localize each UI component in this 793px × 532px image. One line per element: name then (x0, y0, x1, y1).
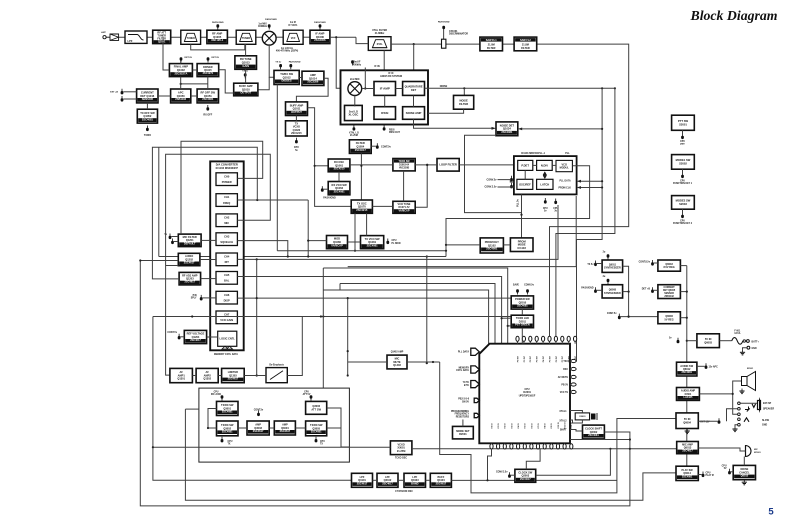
DA channel CH3 (216, 233, 237, 246)
wire noise det right feed (522, 128, 603, 130)
wire 2nd mix drop (336, 37, 348, 88)
wire 314 to rx vco (315, 165, 329, 167)
svg-text:CONT.5v: CONT.5v (381, 145, 392, 148)
pin below ptt (681, 134, 684, 140)
svg-text:5V REG: 5V REG (665, 318, 674, 321)
svg-text:400-470 MHz (2SF4): 400-470 MHz (2SF4) (276, 50, 299, 53)
current detector Q6005 (658, 285, 681, 299)
pin ext 12v (718, 418, 721, 424)
svg-text:RF AMP: RF AMP (212, 31, 222, 35)
DA channel CH6 (216, 291, 237, 304)
svg-text:FREQUENCY: FREQUENCY (455, 414, 470, 416)
wire vertical 615 staircase (556, 88, 615, 336)
wire lpf chain 1 (373, 479, 378, 481)
svg-text:PA/5V/GND: PA/5V/GND (265, 18, 277, 21)
wire line 266 to pll (348, 196, 577, 267)
svg-text:K7 IO: K7 IO (538, 423, 540, 429)
wire play sw pin (698, 474, 701, 476)
noise amplifier U1f (403, 107, 425, 120)
pin clock sw (508, 472, 511, 478)
TX/RX switch Q3005 (306, 421, 327, 436)
svg-text:PA/5V/GND: PA/5V/GND (314, 21, 326, 24)
wire pll down (521, 194, 523, 238)
wire loop y268 (323, 268, 507, 344)
wire fm tune down (245, 69, 247, 83)
wire trunk to 5vin (687, 340, 697, 342)
wire 5vin to switch (719, 340, 731, 342)
pin TX 5v above buff amp (242, 71, 249, 79)
pin cpu play (702, 472, 705, 478)
wire pin synth2 (597, 289, 602, 291)
svg-text:5V: 5V (724, 468, 727, 470)
junction prom clk (601, 186, 603, 188)
svg-text:CH5: CH5 (224, 273, 230, 277)
wire pin to rx vco sw (324, 188, 329, 190)
TX VCO switch Q1081 (361, 236, 384, 249)
pin cont5 mid (618, 314, 621, 320)
junction bus 250 (445, 250, 447, 252)
junction ch4 (256, 258, 258, 260)
connector PLL DATA (471, 348, 480, 355)
svg-text:PLL 5v: PLL 5v (518, 199, 520, 207)
wire 439 route (440, 362, 676, 493)
svg-text:FILTER: FILTER (521, 47, 530, 50)
pin below q3005 (315, 437, 318, 443)
wire feedback down to vco tune (415, 165, 427, 207)
svg-text:DISP: DISP (224, 298, 230, 302)
svg-text:IC1102 M62364FP: IC1102 M62364FP (216, 166, 239, 170)
FM tune Q1013 (235, 56, 257, 70)
svg-text:CH0: CH0 (224, 174, 230, 178)
wire cpu top pad 7 (555, 341, 557, 343)
svg-text:SHIFT: SHIFT (560, 430, 567, 432)
buffer Q3104 (430, 473, 451, 487)
MIC mute Q1403 (387, 355, 407, 369)
svg-text:FREQ: FREQ (223, 201, 230, 205)
junction 347 b (347, 374, 349, 376)
wire noise amp out down (414, 119, 492, 128)
svg-text:2SC4617: 2SC4617 (228, 377, 239, 381)
pin rssi out below IF IC (383, 125, 386, 131)
wire current det to APC (158, 95, 171, 97)
wire buffamp to driver (219, 70, 234, 93)
svg-text:PTT: PTT (680, 144, 685, 146)
wire pin curdet (654, 289, 658, 291)
play switch Q6014 (676, 466, 698, 480)
earphone jack J601 (738, 402, 756, 426)
wire xtal filter input (356, 37, 368, 43)
wire vcxo line (153, 446, 391, 448)
loop filter (437, 159, 459, 172)
junction synth bus b (628, 316, 630, 318)
ground below noise cancel (742, 480, 747, 485)
RF attenuator (153, 30, 171, 44)
svg-text:2SC4081: 2SC4081 (142, 117, 154, 121)
LPF Q3102 (377, 473, 398, 487)
junction prom key feed (445, 244, 447, 246)
pin PA/5V/GND above mixer (265, 18, 277, 30)
CPU top pad 8 (561, 336, 564, 341)
svg-text:CONV.2.5v: CONV.2.5v (496, 471, 508, 473)
svg-text:K6 IO: K6 IO (531, 423, 533, 429)
svg-text:CPU: CPU (680, 220, 685, 222)
pin above q3006 (310, 395, 313, 400)
junction mod feed a (307, 240, 309, 242)
wire buff out right (451, 479, 617, 481)
junction cpu bus 629 (629, 438, 631, 440)
svg-text:CONT.8.5v: CONT.8.5v (639, 261, 651, 263)
tuned filter BPF1 (181, 30, 201, 44)
wire q3002 to q3003 (238, 427, 247, 429)
wire 347 vertical (347, 298, 349, 376)
svg-text:2SB1132: 2SB1132 (175, 97, 186, 101)
wire tx osc to vco tune (372, 205, 393, 207)
svg-text:400MHz: 400MHz (258, 25, 268, 28)
svg-text:LPF: LPF (128, 39, 133, 43)
junction module left (207, 427, 209, 429)
svg-text:CH1: CH1 (224, 195, 230, 199)
wire current det to tx off (146, 103, 148, 109)
PROM key Q1102 (480, 238, 503, 253)
svg-text:PLL: PLL (565, 152, 570, 155)
junction trunk c (686, 340, 688, 342)
svg-text:AF MUTE: AF MUTE (558, 376, 569, 379)
buffer amplifier Q1011 (286, 102, 308, 116)
svg-text:PB 5V: PB 5V (561, 384, 568, 386)
wire nc pin (731, 471, 733, 473)
wire reg1 stub (680, 265, 686, 267)
wire lpf chain 3 (426, 479, 431, 481)
svg-text:DET +B: DET +B (642, 289, 651, 291)
svg-text:DET: DET (411, 88, 417, 92)
wire v2b ch7 down (153, 317, 352, 481)
wire limiter to deemph (244, 375, 266, 377)
svg-text:TX: TX (228, 443, 231, 445)
CPU bottom pad 12 (563, 444, 566, 449)
svg-text:DET Q6005: DET Q6005 (663, 290, 676, 292)
CPU top pad 9 (567, 336, 570, 341)
svg-text:PLL DATA: PLL DATA (458, 351, 469, 354)
svg-text:SPEAKER: SPEAKER (763, 408, 774, 411)
pin above IF IC (351, 60, 354, 65)
wire driver to final amp (192, 69, 197, 71)
mode set R2001 (453, 426, 474, 439)
phase detector (518, 160, 533, 170)
svg-text:RIT: RIT (225, 260, 230, 264)
amplifier Q1014 (302, 71, 324, 85)
svg-text:Q6004: Q6004 (683, 420, 691, 424)
svg-text:SYNTHESIZER: SYNTHESIZER (604, 267, 621, 270)
svg-text:2SC4081: 2SC4081 (311, 430, 322, 434)
junction led stub a (501, 317, 503, 319)
svg-text:2SC4081: 2SC4081 (501, 130, 513, 134)
svg-text:CONT.5v: CONT.5v (167, 332, 177, 334)
svg-text:IF VCF1: IF VCF1 (289, 24, 299, 27)
pin PA/5V/GND above RF amp (212, 21, 224, 30)
wire cpu top pad 4 (536, 341, 538, 343)
TX/RX switch Q1012 (274, 70, 299, 84)
wire cpu top pad 9 (568, 341, 570, 343)
svg-text:S2001: S2001 (679, 123, 687, 127)
svg-text:SQUELCH: SQUELCH (220, 240, 233, 244)
wire cpu right pad 5 (569, 391, 572, 393)
svg-text:MC601: MC601 (754, 452, 762, 454)
svg-text:21.25M: 21.25M (350, 135, 358, 137)
wire antenna to mixer (119, 36, 263, 38)
wire left v4 audio (166, 266, 170, 376)
svg-text:FUNCTION KEY 1: FUNCTION KEY 1 (673, 183, 693, 185)
TX/RX switch Q3001 (217, 401, 239, 415)
junction 2nd mix drop (335, 36, 337, 38)
CPU bottom pad 13 (570, 444, 573, 449)
wire ext b to current det (123, 91, 136, 93)
junction 256 audio (256, 374, 258, 376)
DA channel CH2 (216, 214, 237, 227)
wire q3001 chain (208, 409, 217, 429)
svg-text:EXT +B: EXT +B (110, 92, 118, 94)
wire trunk to quad det (413, 44, 415, 81)
pin conv5 power (526, 289, 529, 294)
CPU bottom pad 8 (536, 444, 539, 449)
wire left v185 (185, 409, 676, 500)
svg-text:PLL DATA: PLL DATA (560, 180, 571, 183)
svg-text:SENSOR: SENSOR (664, 293, 674, 295)
TX oscillator Q1070 (351, 200, 372, 213)
wire jack c1 to extsp (740, 402, 757, 404)
svg-text:MODUL: MODUL (560, 166, 570, 169)
junction trunk a (686, 291, 688, 293)
svg-text:Q1006: Q1006 (316, 35, 325, 39)
pin PA/5V/GND above IF amp (314, 21, 326, 30)
pin EXT +B 1 (110, 89, 123, 95)
svg-text:K9 IO: K9 IO (551, 423, 553, 429)
CPU top pad 5 (542, 336, 545, 341)
wire micf pin b (174, 241, 178, 243)
svg-text:De-Emphasis: De-Emphasis (269, 364, 284, 366)
svg-text:3.15A: 3.15A (734, 332, 740, 335)
CPU bottom pad 10 (550, 444, 553, 449)
svg-text:CONV.5v: CONV.5v (486, 178, 497, 181)
wire mod feed (307, 200, 309, 257)
RX VCO Q1061 (328, 159, 350, 172)
svg-text:2SC4081: 2SC4081 (682, 475, 693, 478)
2nd LO oscillator U1d (345, 105, 363, 120)
svg-text:POWER: POWER (222, 180, 232, 184)
svg-text:2SC4081: 2SC4081 (588, 434, 599, 437)
wire 2nd IF trunk (391, 44, 629, 336)
svg-text:IF AMP: IF AMP (380, 87, 390, 91)
svg-text:K5 IO: K5 IO (525, 423, 527, 429)
filter Q1054 (349, 140, 371, 154)
wire cpu bottom pad 4 (510, 442, 512, 445)
junction noise right 615 (614, 87, 616, 89)
reference voltage Q1204 (184, 330, 206, 343)
connector MEMORY CNTL DATA (471, 366, 480, 373)
wire cpu bottom pad 7 (530, 442, 532, 445)
CPU IC2001 outline (479, 344, 570, 444)
wire pin reg1 (654, 262, 658, 264)
svg-text:Q6015: Q6015 (741, 475, 749, 478)
svg-text:CNTL DATA: CNTL DATA (456, 369, 469, 372)
wire cpu top pad 3 (529, 341, 531, 343)
attenuator R1018 (442, 31, 446, 48)
CPU bottom pad 3 (503, 444, 506, 449)
wire loop y268 left (322, 268, 324, 290)
wire ch4 right long (237, 205, 558, 259)
wire ch2 right (166, 154, 271, 265)
svg-text:2nd MIX: 2nd MIX (350, 78, 360, 81)
svg-text:PROGRAMMING: PROGRAMMING (451, 410, 469, 413)
pin cont85 (651, 260, 654, 266)
svg-text:SENSOR: SENSOR (142, 97, 153, 101)
svg-text:DET IN: DET IN (212, 57, 220, 59)
svg-text:OUTPUT: OUTPUT (240, 91, 251, 95)
wire audio amp to speaker (699, 381, 741, 394)
wire RF off sw up to driver (207, 77, 209, 89)
svg-text:RX OFF: RX OFF (203, 114, 212, 117)
svg-text:8.5V REG: 8.5V REG (663, 266, 674, 269)
svg-text:XTAL LO: XTAL LO (349, 132, 359, 135)
wire cpu bottom pad 10 (550, 442, 552, 445)
MIC filter Q1201 (178, 234, 201, 247)
svg-text:CPU: CPU (722, 465, 727, 467)
wire shift to clock shift (570, 430, 583, 432)
junction clock sw line (609, 448, 611, 450)
svg-text:21.25M: 21.25M (397, 449, 406, 453)
wire 2nd LO to mixer (354, 96, 356, 107)
svg-text:OSC/REF: OSC/REF (519, 182, 531, 186)
svg-text:CH4: CH4 (224, 255, 230, 259)
svg-text:P1 INT: P1 INT (524, 355, 526, 362)
pin CONT 5v right of filter (376, 143, 379, 149)
wire tx osc down b (366, 213, 368, 235)
junction cont5 (628, 316, 630, 318)
CPU bottom pad 11 (556, 444, 559, 449)
wire q3003 to q3004 (269, 427, 274, 429)
svg-text:PTT SW: PTT SW (678, 119, 689, 123)
svg-text:ATT 5V: ATT 5V (303, 393, 311, 396)
svg-text:UPD75P316GF: UPD75P316GF (519, 394, 536, 397)
mixer 1st MIX (262, 31, 276, 45)
CPU bottom pad 9 (543, 444, 546, 449)
noise detector Q1034 (496, 122, 518, 136)
wire tx osc down a (354, 213, 356, 250)
svg-text:2SC4617: 2SC4617 (280, 429, 291, 433)
RX VCO switch Q1062 (328, 182, 350, 195)
quadrature detector U1c (403, 82, 425, 96)
wire cpu top pad 6 (549, 341, 551, 343)
pin right of tx vco sw (386, 239, 389, 245)
svg-text:Q1403: Q1403 (393, 363, 401, 367)
wire cpu bottom pad 11 (557, 442, 559, 445)
svg-text:LOOP FILTER: LOOP FILTER (439, 163, 457, 167)
junction mod feed b (307, 255, 309, 257)
audio switch Q6012 (677, 362, 697, 376)
final amplifier Q1002 (169, 64, 192, 77)
wire ch1 right (237, 199, 308, 201)
svg-text:P2 INT: P2 INT (530, 355, 532, 362)
svg-text:BAND: BAND (411, 481, 419, 485)
wire to mic mute (348, 361, 387, 363)
wire led stub b (508, 325, 512, 327)
svg-text:R2001: R2001 (459, 432, 467, 436)
junction ch7 b (320, 315, 322, 317)
wire synth2 stub (623, 291, 629, 293)
wire 427 lower segment (426, 257, 428, 364)
IF amplifier Q1006 (310, 30, 330, 43)
junction tx osc 250 (354, 250, 356, 252)
wire vcxo to mic amp (412, 448, 677, 450)
pin below mode1 (681, 173, 684, 179)
svg-text:2SC4081: 2SC4081 (222, 410, 233, 414)
switch Q3006 (306, 401, 327, 414)
svg-text:Q1301: Q1301 (177, 377, 185, 381)
DA channel CH4 (216, 253, 237, 266)
wire filter pin stub (371, 145, 376, 147)
wire apc cross bar (181, 83, 208, 85)
svg-text:XTAL2: XTAL2 (559, 420, 567, 423)
PLL module outline (199, 388, 350, 462)
svg-text:MIC: MIC (754, 449, 758, 451)
pin RX OFF below RF off sw (206, 105, 209, 111)
limiter Q1303 (222, 368, 245, 382)
CPU right pad 1 (571, 359, 576, 362)
pin tx5v synth1 (594, 261, 597, 267)
wire gnd terminal (743, 348, 748, 350)
svg-text:P4 INT: P4 INT (542, 355, 545, 362)
wire led to cpu (521, 328, 523, 344)
svg-text:MEMORY CNTL DATA: MEMORY CNTL DATA (214, 353, 238, 356)
wire mic mute out (407, 361, 440, 363)
wire audio sw pin (697, 365, 705, 367)
svg-text:VARICAP: VARICAP (398, 209, 409, 212)
svg-text:TCXO OSC: TCXO OSC (395, 458, 407, 460)
svg-text:3SK195-1: 3SK195-1 (211, 38, 224, 42)
mixer 2nd MIX U1a (348, 82, 362, 96)
svg-text:TX 5V: TX 5V (463, 382, 470, 384)
svg-text:P0 INT: P0 INT (517, 355, 519, 362)
wire mic down to nc (743, 457, 745, 466)
AF amplifier Q1302 (196, 368, 218, 382)
wire IF amp2 to RSSI (384, 95, 386, 106)
junction 629 line (629, 448, 631, 450)
wire pin ch6 (203, 297, 216, 299)
arrow latch up (543, 172, 547, 179)
latch (537, 179, 553, 189)
junction 347 a (347, 350, 349, 352)
wire cpu top pad 5 (542, 341, 544, 343)
amplifier Q3004 (274, 421, 295, 435)
svg-text:K2 IO: K2 IO (505, 423, 507, 429)
wire bypass under filters (191, 44, 245, 50)
pin EXT +B 2 (121, 96, 124, 102)
wire cont5 wire right (621, 316, 658, 318)
svg-text:FILTER: FILTER (487, 47, 496, 50)
wire loop filter to PLL (459, 164, 514, 166)
svg-text:SAW FL2: SAW FL2 (520, 39, 531, 42)
svg-text:2SC4215: 2SC4215 (291, 132, 302, 135)
wire jack c5 gnd (735, 425, 738, 427)
wire mode set up (462, 420, 464, 427)
wire mixer LO from TX/RX SW (269, 45, 274, 77)
connector programming (474, 413, 479, 417)
junction 323 ch7 (322, 315, 324, 317)
wire powersw to led (521, 309, 523, 315)
wire led stub a (502, 317, 512, 319)
pin save (516, 289, 519, 294)
wire cpu pad to clock sw (526, 449, 540, 469)
svg-text:5: 5 (768, 507, 774, 518)
